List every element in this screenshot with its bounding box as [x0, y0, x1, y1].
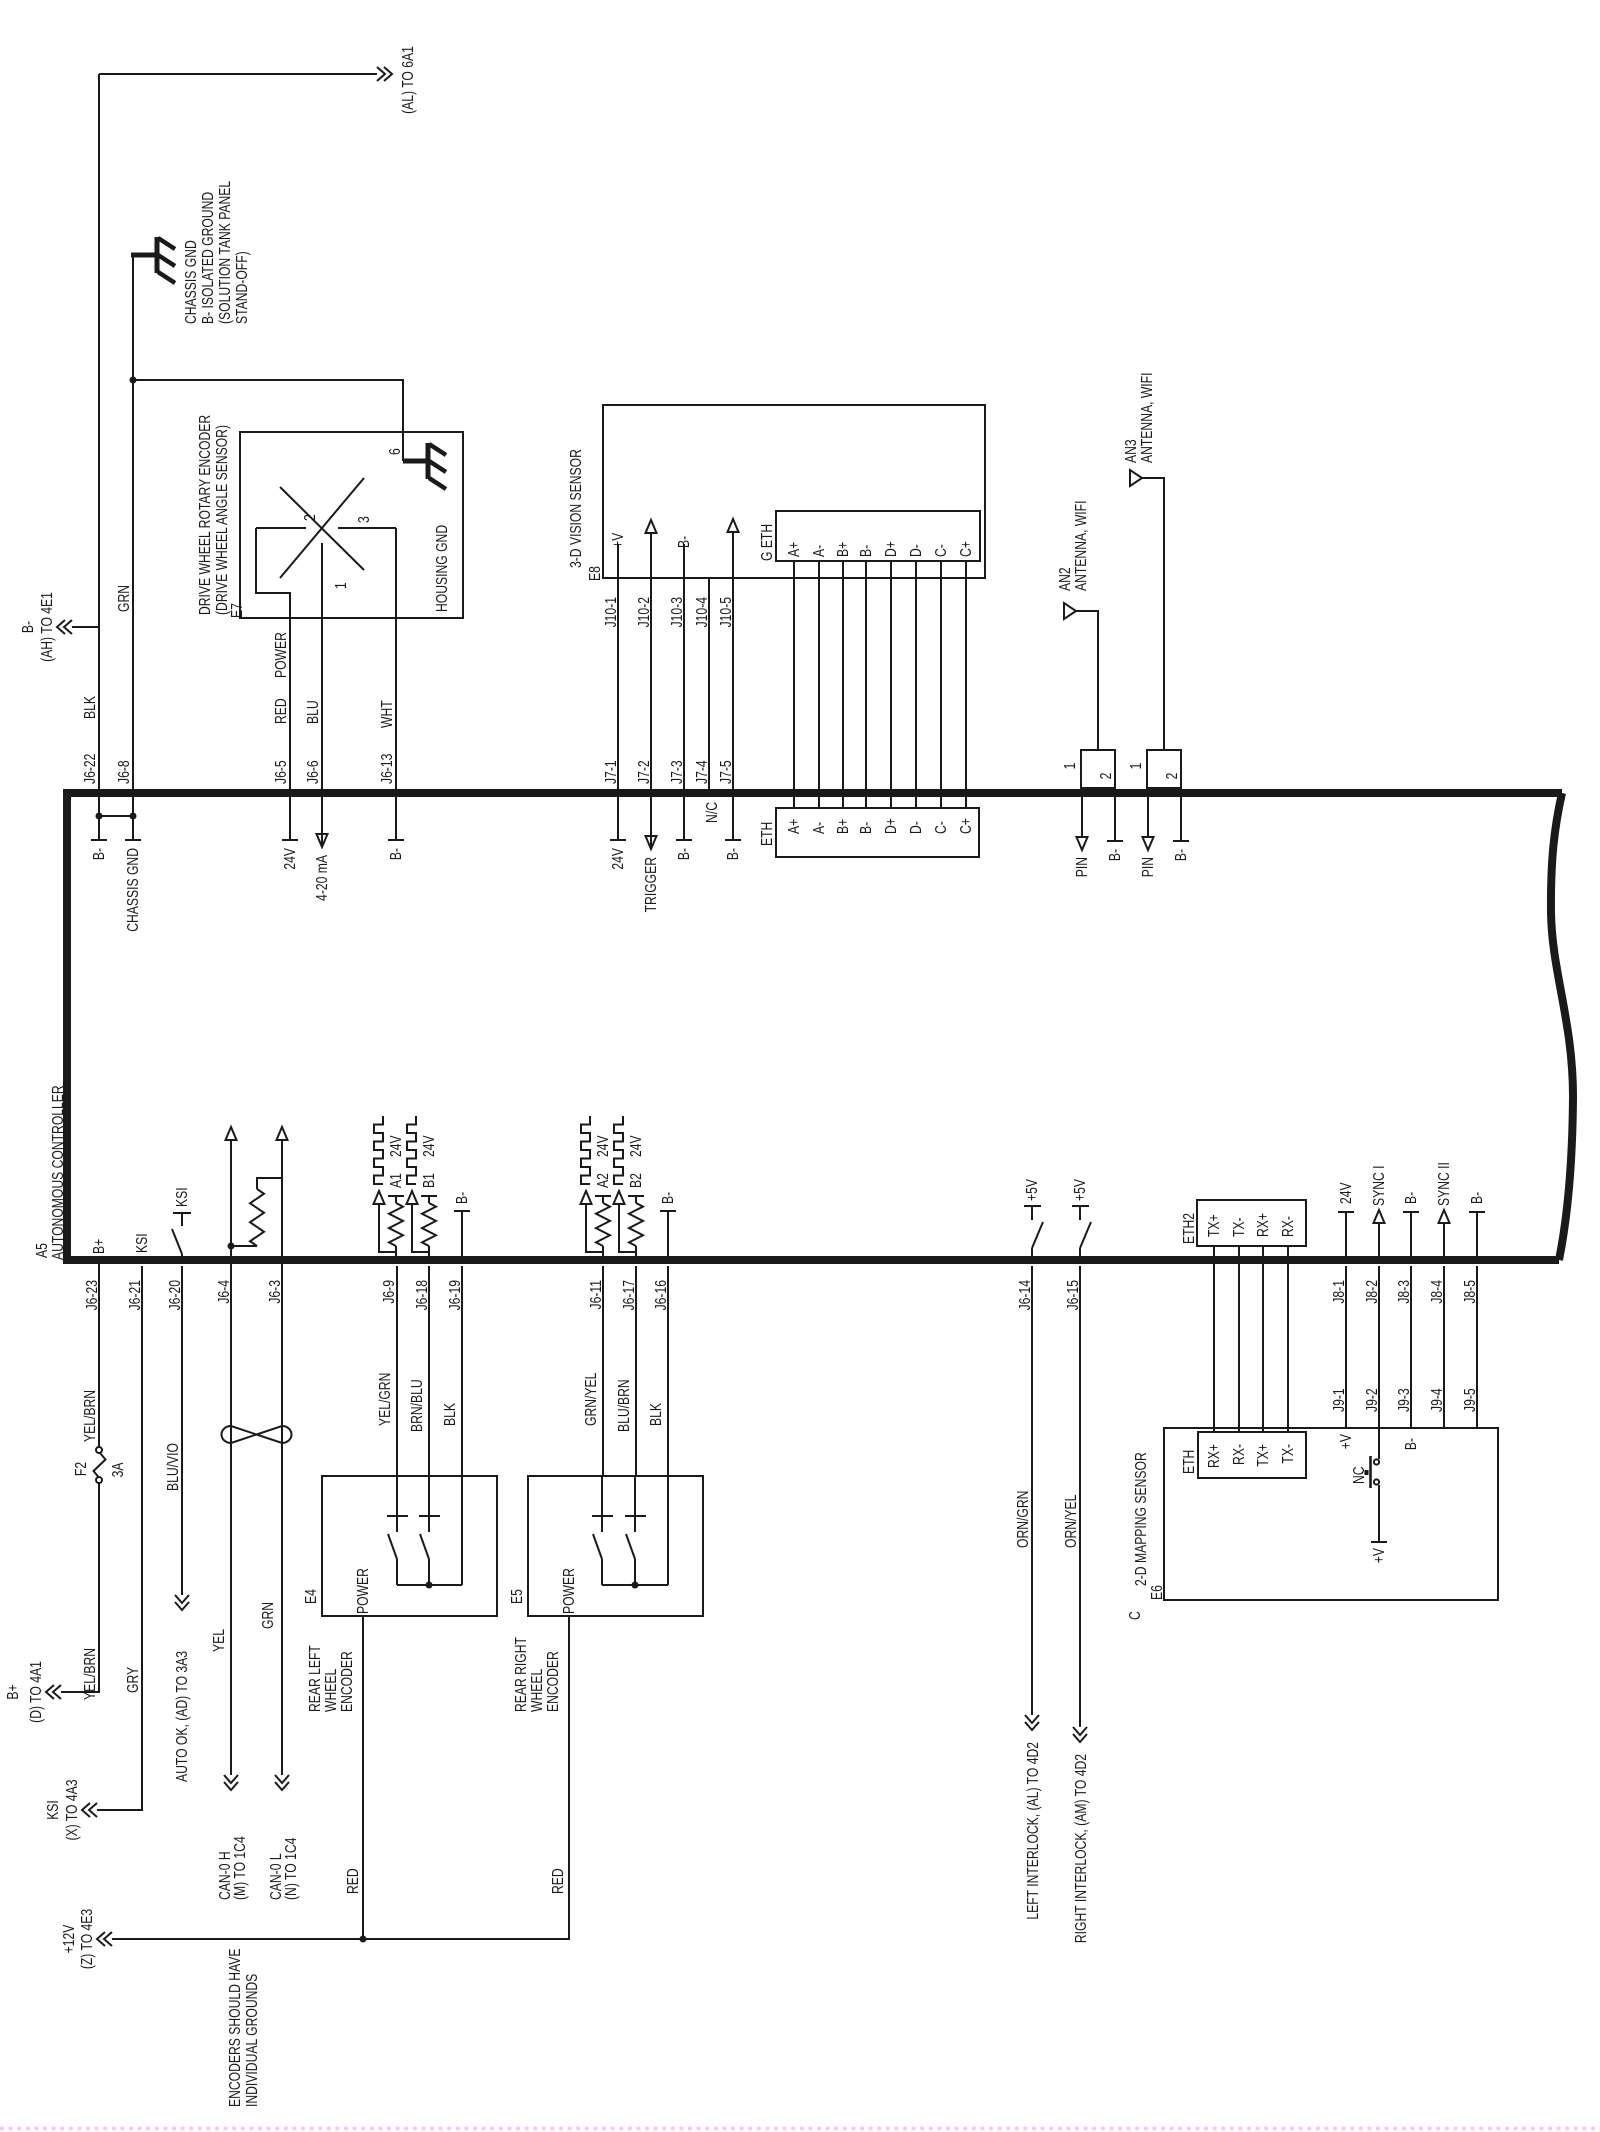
- svg-text:J6-5: J6-5: [272, 760, 290, 784]
- svg-text:ENCODER: ENCODER: [338, 1651, 356, 1712]
- svg-text:24V: 24V: [281, 848, 299, 870]
- wire RED J6-5: [289, 618, 291, 796]
- svg-text:PIN: PIN: [1073, 857, 1091, 877]
- svg-text:B-: B-: [1172, 849, 1190, 861]
- wire J7-2 / J10-2: [650, 578, 652, 796]
- square wave symbol A2: [581, 1116, 590, 1184]
- svg-text:RED: RED: [272, 698, 290, 724]
- svg-text:C-: C-: [932, 821, 950, 834]
- antenna connector AN3 box: [1147, 750, 1181, 788]
- wire B- to (AL) corner: [99, 73, 377, 75]
- svg-text:POWER: POWER: [354, 1568, 372, 1614]
- svg-text:B-: B-: [1402, 1438, 1420, 1450]
- wire BLU/BRN J6-17: [635, 1266, 637, 1476]
- link B- to chassis gnd: [99, 815, 133, 817]
- svg-text:GRY: GRY: [124, 1666, 142, 1693]
- svg-text:J10-4: J10-4: [693, 597, 711, 627]
- svg-text:KSI: KSI: [44, 1800, 62, 1820]
- svg-text:CHASSIS GND: CHASSIS GND: [124, 848, 142, 932]
- resistor B2: [635, 1246, 637, 1262]
- svg-text:ETH: ETH: [1180, 1450, 1198, 1474]
- svg-text:J10-2: J10-2: [635, 597, 653, 627]
- svg-text:GRN: GRN: [115, 585, 133, 612]
- wire ETH2 RX+: [1262, 1246, 1264, 1432]
- svg-text:RIGHT INTERLOCK, (AM) TO 4D2: RIGHT INTERLOCK, (AM) TO 4D2: [1072, 1754, 1090, 1943]
- svg-text:BLU/BRN: BLU/BRN: [615, 1379, 633, 1432]
- svg-text:A2: A2: [594, 1173, 612, 1188]
- stub B- J7-5 inside controller: [732, 796, 734, 840]
- svg-text:DRIVE WHEEL ROTARY ENCODER: DRIVE WHEEL ROTARY ENCODER: [196, 415, 214, 615]
- svg-text:J9-5: J9-5: [1461, 1388, 1479, 1412]
- wire ETH C+: [965, 561, 967, 808]
- stub CHASSIS GND J6-8 inside: [132, 796, 134, 840]
- resistor B1: [428, 1246, 430, 1262]
- svg-text:J7-3: J7-3: [668, 760, 686, 784]
- svg-text:C+: C+: [957, 541, 975, 557]
- svg-text:B+: B+: [834, 542, 852, 557]
- wire J7-5 / J10-5: [732, 578, 734, 796]
- svg-text:B-: B-: [387, 848, 405, 860]
- svg-text:GRN: GRN: [259, 1602, 277, 1629]
- wire antenna AN2: [1075, 611, 1098, 750]
- svg-text:ANTENNA, WIFI: ANTENNA, WIFI: [1138, 373, 1156, 463]
- svg-text:TX-: TX-: [1279, 1444, 1297, 1464]
- svg-text:J6-23: J6-23: [83, 1280, 101, 1310]
- svg-text:TRIGGER: TRIGGER: [642, 857, 660, 912]
- svg-text:(DRIVE WHEEL ANGLE SENSOR): (DRIVE WHEEL ANGLE SENSOR): [213, 425, 231, 615]
- encoder pin 1: [321, 543, 323, 618]
- svg-text:B+: B+: [4, 1684, 22, 1699]
- svg-text:ORN/YEL: ORN/YEL: [1062, 1495, 1080, 1548]
- wire B- branch to (AH): [72, 626, 99, 628]
- svg-text:B-: B-: [453, 1192, 471, 1204]
- svg-text:D-: D-: [907, 821, 925, 834]
- wire BLK J6-19: [461, 1266, 463, 1476]
- svg-text:ORN/GRN: ORN/GRN: [1014, 1491, 1032, 1548]
- svg-text:POWER: POWER: [272, 632, 290, 678]
- svg-text:BLU: BLU: [304, 700, 322, 724]
- svg-text:RX+: RX+: [1205, 1444, 1223, 1468]
- stub B- J7-3 inside controller: [683, 796, 685, 840]
- svg-text:(M) TO 1C4: (M) TO 1C4: [231, 1836, 249, 1900]
- svg-text:2: 2: [1163, 773, 1181, 780]
- bus E5: [602, 1584, 668, 1586]
- svg-text:+V: +V: [1370, 1548, 1388, 1564]
- wire ETH2 TX-: [1238, 1246, 1240, 1432]
- svg-text:J9-1: J9-1: [1330, 1388, 1348, 1412]
- BLK wire inside E4: [461, 1476, 463, 1585]
- svg-text:E6: E6: [1148, 1585, 1166, 1600]
- NC pushbutton J9-2: [1378, 1428, 1380, 1459]
- svg-text:INDIVIDUAL GROUNDS: INDIVIDUAL GROUNDS: [243, 1974, 261, 2107]
- svg-text:KSI: KSI: [133, 1233, 151, 1253]
- svg-text:J7-4: J7-4: [693, 760, 711, 784]
- square wave symbol B1: [407, 1116, 416, 1184]
- wire ETH B+: [842, 561, 844, 808]
- svg-text:C+: C+: [957, 818, 975, 834]
- stub 24V J8-1: [1345, 1212, 1347, 1262]
- switch +5V at y=1032: [1031, 1248, 1033, 1262]
- junction dot +12V/E4: [360, 1936, 367, 1943]
- svg-text:B+: B+: [834, 819, 852, 834]
- connector ETH (E6) box: [1198, 1432, 1306, 1478]
- svg-text:F2: F2: [72, 1462, 90, 1476]
- wire GRN J6-8 net: [132, 257, 134, 796]
- wire ETH C-: [940, 561, 942, 808]
- wire J8-3 / J9-3: [1410, 1266, 1412, 1428]
- wire LEFT INTERLOCK J6-14: [1031, 1266, 1033, 1715]
- encoder E7 box: [240, 432, 463, 618]
- svg-text:B-: B-: [659, 1192, 677, 1204]
- svg-text:CHASSIS GND: CHASSIS GND: [182, 240, 200, 324]
- wire BRN/BLU J6-18: [428, 1266, 430, 1476]
- controller box torn-edge break line: [1551, 793, 1573, 1260]
- svg-text:NC: NC: [1350, 1466, 1368, 1484]
- svg-text:2: 2: [301, 514, 319, 521]
- svg-text:ETH2: ETH2: [1180, 1213, 1198, 1244]
- connector G ETH box: [776, 511, 980, 561]
- svg-text:N/C: N/C: [703, 802, 721, 823]
- svg-text:J10-1: J10-1: [602, 597, 620, 627]
- switch 1 E4: [396, 1476, 398, 1532]
- square wave symbol B2: [614, 1116, 623, 1184]
- svg-text:B-: B-: [857, 545, 875, 557]
- encoder E7 cross symbol: [280, 487, 364, 570]
- svg-text:BLK: BLK: [81, 696, 99, 719]
- stub TRIGGER J7-2 inside controller: [650, 796, 652, 849]
- stub B- J6-16 inside: [667, 1211, 669, 1262]
- svg-text:24V: 24V: [387, 1135, 405, 1157]
- svg-text:E7: E7: [228, 603, 246, 618]
- svg-text:J7-5: J7-5: [717, 760, 735, 784]
- svg-text:B- ISOLATED GROUND: B- ISOLATED GROUND: [199, 192, 217, 324]
- svg-text:B-: B-: [19, 621, 37, 633]
- wire CAN-0 L outside: [281, 1264, 283, 1775]
- svg-text:TX-: TX-: [1230, 1217, 1248, 1237]
- wire GRN branch to encoder pin 6: [133, 380, 403, 461]
- svg-text:BLU/VIO: BLU/VIO: [164, 1443, 182, 1491]
- svg-text:(D) TO 4A1: (D) TO 4A1: [27, 1661, 45, 1723]
- antenna symbol AN2: [1064, 603, 1076, 619]
- svg-text:3: 3: [355, 516, 373, 523]
- svg-text:D-: D-: [907, 544, 925, 557]
- svg-text:RED: RED: [549, 1868, 567, 1894]
- wire WHT J6-13: [395, 528, 397, 796]
- svg-text:A-: A-: [810, 545, 828, 557]
- svg-text:WHT: WHT: [378, 700, 396, 728]
- svg-text:24V: 24V: [1337, 1182, 1355, 1204]
- 2-D mapping sensor E6 box: [1164, 1428, 1498, 1600]
- stub B- J6-13 inside: [395, 796, 397, 840]
- wire +12V rail: [112, 1617, 569, 1939]
- stub B- J8-3: [1410, 1212, 1412, 1262]
- fuse F2 3A: [96, 1477, 102, 1483]
- svg-text:J6-22: J6-22: [81, 754, 99, 784]
- svg-text:RX-: RX-: [1279, 1216, 1297, 1237]
- wire ETH A-: [818, 561, 820, 808]
- svg-text:B-: B-: [675, 848, 693, 860]
- power wire E4: [362, 1616, 364, 1939]
- wire ETH A+: [793, 561, 795, 808]
- wire ETH B-: [865, 561, 867, 808]
- switch 2 E5: [634, 1476, 636, 1532]
- 3-D vision sensor E8 box: [603, 405, 985, 578]
- stub SYNC I J8-2: [1378, 1223, 1380, 1262]
- wire ETH2 TX+: [1213, 1246, 1215, 1432]
- wire RED E4 power to +12V rail: [362, 1617, 364, 1939]
- wire BLU J6-6: [321, 543, 323, 796]
- svg-text:STAND-OFF): STAND-OFF): [233, 251, 251, 324]
- svg-text:(AH) TO 4E1: (AH) TO 4E1: [38, 592, 56, 662]
- svg-text:J6-6: J6-6: [304, 760, 322, 784]
- svg-text:E8: E8: [586, 566, 604, 581]
- svg-text:(AL) TO 6A1: (AL) TO 6A1: [399, 46, 417, 114]
- svg-text:LEFT INTERLOCK, (AL) TO 4D2: LEFT INTERLOCK, (AL) TO 4D2: [1024, 1742, 1042, 1920]
- wheel encoder E5 box: [528, 1476, 703, 1616]
- svg-text:24V: 24V: [594, 1135, 612, 1157]
- wire BLK J6-16: [667, 1266, 669, 1476]
- svg-text:BRN/BLU: BRN/BLU: [408, 1379, 426, 1432]
- wire KSI J6-21 net: [97, 1266, 142, 1810]
- svg-text:GRN/YEL: GRN/YEL: [582, 1373, 600, 1426]
- stub B- J6-22 inside: [98, 796, 100, 840]
- stub B- J6-19 inside: [461, 1211, 463, 1262]
- encoder pin 3: [338, 527, 396, 529]
- svg-text:+V: +V: [1337, 1434, 1355, 1450]
- wire CAN-0 H inside J6-4: [230, 1140, 232, 1262]
- svg-text:E4: E4: [302, 1589, 320, 1604]
- svg-text:B-: B-: [857, 822, 875, 834]
- svg-text:B+: B+: [90, 1239, 108, 1254]
- switch 2 E4: [428, 1476, 430, 1532]
- wheel encoder E4 box: [322, 1476, 497, 1616]
- svg-text:RED: RED: [344, 1868, 362, 1894]
- wire ETH D-: [915, 561, 917, 808]
- autonomous controller A5 box outline: [67, 793, 1559, 1260]
- wire B- J6-22 net: [98, 74, 100, 796]
- BLK wire inside E5: [667, 1476, 669, 1585]
- twisted pair symbol: [222, 1426, 292, 1443]
- wire GRN/YEL J6-11: [602, 1266, 604, 1476]
- svg-text:24V: 24V: [609, 848, 627, 870]
- wire J7-1 / J10-1: [617, 578, 619, 796]
- switch KSI J6-20: [181, 1254, 183, 1262]
- svg-text:SYNC II: SYNC II: [1435, 1162, 1453, 1206]
- svg-text:PIN: PIN: [1139, 857, 1157, 877]
- stub +V J10-1 inside E8: [617, 544, 619, 578]
- wire ETH2 RX-: [1287, 1246, 1289, 1432]
- svg-text:HOUSING GND: HOUSING GND: [433, 525, 451, 612]
- wire CAN-0 H outside: [230, 1264, 232, 1775]
- svg-text:2-D MAPPING SENSOR: 2-D MAPPING SENSOR: [1132, 1452, 1150, 1586]
- antenna connector AN2 box: [1081, 750, 1115, 788]
- svg-text:J6-13: J6-13: [378, 754, 396, 784]
- switch +5V at y=1080: [1079, 1248, 1081, 1262]
- svg-text:+5V: +5V: [1023, 1179, 1041, 1201]
- PWM output B1 branch: [412, 1204, 429, 1252]
- svg-text:C: C: [1126, 1611, 1144, 1620]
- svg-text:(Z) TO 4E3: (Z) TO 4E3: [78, 1909, 96, 1969]
- wire CAN-0 L inside J6-3: [281, 1140, 283, 1262]
- svg-text:B-: B-: [1468, 1192, 1486, 1204]
- svg-text:D+: D+: [882, 818, 900, 834]
- PWM output A1 branch: [379, 1204, 396, 1252]
- wire J8-5 / J9-5: [1476, 1266, 1478, 1428]
- svg-text:BLK: BLK: [441, 1403, 459, 1426]
- svg-text:RX+: RX+: [1254, 1213, 1272, 1237]
- svg-text:E5: E5: [508, 1589, 526, 1604]
- svg-text:YEL: YEL: [210, 1629, 228, 1652]
- svg-text:J6-9: J6-9: [380, 1280, 398, 1304]
- svg-text:AUTO OK, (AD) TO 3A3: AUTO OK, (AD) TO 3A3: [173, 1651, 191, 1782]
- svg-text:J6-8: J6-8: [115, 760, 133, 784]
- svg-text:+5V: +5V: [1071, 1179, 1089, 1201]
- svg-text:J6-21: J6-21: [126, 1280, 144, 1310]
- svg-text:J7-1: J7-1: [602, 760, 620, 784]
- svg-text:3A: 3A: [109, 1462, 127, 1477]
- wire pin 2 elbow to J6-5: [256, 528, 290, 618]
- wire AUTO OK J6-20 outside: [181, 1266, 183, 1595]
- arrow J10-2 inside E8: [650, 533, 652, 578]
- arrow J10-5 inside E8: [732, 532, 734, 578]
- svg-text:A1: A1: [387, 1173, 405, 1188]
- svg-text:C-: C-: [932, 544, 950, 557]
- svg-text:B-: B-: [724, 848, 742, 860]
- svg-text:BLK: BLK: [647, 1403, 665, 1426]
- svg-text:(X) TO 4A3: (X) TO 4A3: [63, 1779, 81, 1840]
- wire B+ J6-23 net: [61, 1483, 99, 1692]
- junction dot CAN resistor: [228, 1243, 235, 1250]
- junction dot GRN branch: [130, 377, 137, 384]
- svg-text:B2: B2: [627, 1173, 645, 1188]
- svg-text:B-: B-: [90, 848, 108, 860]
- svg-text:+V: +V: [609, 532, 627, 548]
- svg-text:24V: 24V: [627, 1135, 645, 1157]
- svg-text:J7-2: J7-2: [635, 760, 653, 784]
- housing ground symbol: [403, 459, 428, 464]
- power wire E5: [568, 1616, 570, 1939]
- svg-text:KSI: KSI: [173, 1187, 191, 1207]
- antenna symbol AN3: [1130, 470, 1142, 486]
- wire ETH D+: [890, 561, 892, 808]
- svg-text:1: 1: [332, 582, 350, 589]
- svg-text:ANTENNA, WIFI: ANTENNA, WIFI: [1072, 501, 1090, 591]
- svg-text:SYNC I: SYNC I: [1370, 1165, 1388, 1206]
- svg-text:J9-4: J9-4: [1428, 1388, 1446, 1412]
- svg-text:J10-3: J10-3: [668, 597, 686, 627]
- CAN termination resistor: [231, 1245, 257, 1247]
- wire antenna AN3: [1141, 478, 1164, 750]
- svg-text:+12V: +12V: [60, 1924, 78, 1953]
- page edge dotted border: [0, 2127, 1600, 2130]
- svg-text:B1: B1: [420, 1173, 438, 1188]
- label B- J10-3 inside E8: [683, 544, 685, 578]
- svg-text:RX-: RX-: [1230, 1444, 1248, 1465]
- wire YEL/GRN J6-9: [396, 1266, 398, 1476]
- svg-text:(SOLUTION TANK PANEL: (SOLUTION TANK PANEL: [216, 181, 234, 324]
- svg-text:A+: A+: [785, 542, 803, 557]
- stub 24V J7-1 inside controller: [617, 796, 619, 840]
- svg-text:4-20 mA: 4-20 mA: [313, 855, 331, 901]
- square wave symbol A1: [374, 1116, 383, 1184]
- svg-text:YEL/BRN: YEL/BRN: [81, 1390, 99, 1442]
- svg-text:G ETH: G ETH: [758, 524, 776, 561]
- resistor A2: [602, 1246, 604, 1262]
- wire J8-2 / J9-2: [1378, 1266, 1380, 1428]
- svg-text:(N) TO 1C4: (N) TO 1C4: [282, 1838, 300, 1900]
- svg-text:J9-3: J9-3: [1395, 1388, 1413, 1412]
- svg-text:ETH: ETH: [758, 822, 776, 846]
- switch 1 E5: [601, 1476, 603, 1532]
- stub B- J8-5: [1476, 1212, 1478, 1262]
- svg-text:J9-2: J9-2: [1363, 1388, 1381, 1412]
- svg-text:24V: 24V: [420, 1135, 438, 1157]
- svg-text:POWER: POWER: [560, 1568, 578, 1614]
- svg-text:B-: B-: [1106, 849, 1124, 861]
- svg-text:B-: B-: [675, 536, 693, 548]
- connector ETH (controller side) box: [776, 808, 979, 857]
- svg-text:TX+: TX+: [1205, 1214, 1223, 1237]
- stub SYNC II J8-4: [1443, 1223, 1445, 1262]
- encoder pin 2: [256, 527, 306, 529]
- stub 4-20 mA J6-6 inside: [321, 796, 323, 847]
- svg-text:YEL/GRN: YEL/GRN: [376, 1373, 394, 1426]
- connector ETH2 box: [1197, 1200, 1306, 1246]
- wire J8-4 / J9-4: [1443, 1266, 1445, 1428]
- wire RIGHT INTERLOCK J6-15: [1079, 1266, 1081, 1727]
- svg-text:ENCODERS SHOULD HAVE: ENCODERS SHOULD HAVE: [226, 1949, 244, 2107]
- svg-text:A-: A-: [810, 822, 828, 834]
- svg-text:1: 1: [1127, 763, 1145, 770]
- svg-text:3-D VISION SENSOR: 3-D VISION SENSOR: [567, 449, 585, 568]
- wire J8-1 / J9-1: [1345, 1266, 1347, 1428]
- svg-text:B-: B-: [1402, 1192, 1420, 1204]
- svg-text:1: 1: [1061, 763, 1079, 770]
- svg-text:2: 2: [1097, 773, 1115, 780]
- wire J7-4 / J10-4: [708, 578, 710, 796]
- resistor A1: [395, 1246, 397, 1262]
- svg-text:TX+: TX+: [1254, 1444, 1272, 1467]
- svg-text:6: 6: [386, 448, 404, 455]
- svg-text:J10-5: J10-5: [717, 597, 735, 627]
- off-page connector (AL) TO 6A1: [377, 67, 392, 81]
- PWM output A2 branch: [586, 1204, 603, 1252]
- svg-text:A+: A+: [785, 819, 803, 834]
- chassis ground symbol: [131, 253, 157, 258]
- PWM output B2 branch: [619, 1204, 636, 1252]
- bus E4: [397, 1584, 462, 1586]
- svg-text:AUTONOMOUS CONTROLLER: AUTONOMOUS CONTROLLER: [49, 1085, 67, 1260]
- svg-text:D+: D+: [882, 541, 900, 557]
- svg-text:ENCODER: ENCODER: [544, 1651, 562, 1712]
- wire J7-3 / J10-3: [683, 578, 685, 796]
- svg-text:YEL/BRN: YEL/BRN: [81, 1648, 99, 1700]
- stub 24V J6-5 inside: [289, 796, 291, 840]
